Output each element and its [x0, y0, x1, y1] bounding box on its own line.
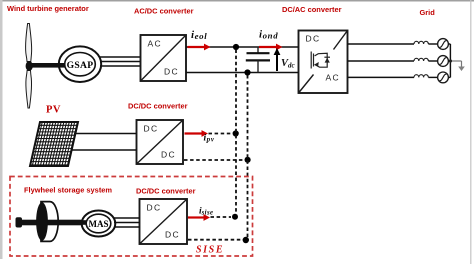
svg-text:Grid: Grid [420, 8, 436, 17]
svg-text:Flywheel storage system: Flywheel storage system [24, 186, 112, 195]
svg-text:DC: DC [147, 203, 162, 213]
svg-text:DC/DC converter: DC/DC converter [136, 187, 196, 196]
svg-text:DC: DC [164, 67, 179, 77]
svg-text:AC: AC [326, 73, 340, 83]
svg-text:ieol: ieol [191, 29, 207, 41]
svg-text:Wind turbine generator: Wind turbine generator [7, 4, 89, 13]
svg-text:GSAP: GSAP [67, 60, 94, 71]
svg-text:DC/DC converter: DC/DC converter [128, 102, 188, 111]
svg-text:MAS: MAS [89, 219, 109, 229]
svg-text:DC: DC [165, 230, 180, 240]
svg-text:iond: iond [259, 29, 278, 41]
svg-text:DC: DC [306, 34, 321, 44]
svg-text:ipv: ipv [204, 134, 215, 144]
svg-text:AC/DC converter: AC/DC converter [134, 7, 194, 16]
svg-text:SISE: SISE [196, 244, 224, 255]
svg-text:DC: DC [144, 124, 159, 134]
svg-text:AC: AC [148, 39, 162, 49]
svg-text:DC: DC [161, 150, 176, 160]
svg-text:PV: PV [46, 105, 61, 116]
svg-text:DC/AC converter: DC/AC converter [282, 5, 342, 14]
